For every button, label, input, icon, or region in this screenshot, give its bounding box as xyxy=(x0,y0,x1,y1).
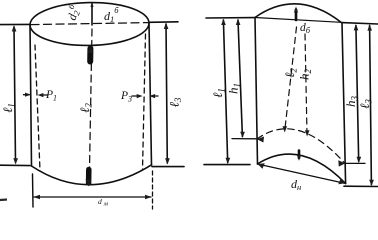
svg-text:h1: h1 xyxy=(226,83,243,94)
bottom-left extension for diameter xyxy=(32,174,35,207)
svg-text:h2: h2 xyxy=(297,69,314,81)
cylinder left side wall xyxy=(30,25,32,167)
d_b thick tick at top arc xyxy=(295,10,298,21)
dimension line l3 (right of left figure) xyxy=(166,24,167,163)
arrowhead P1 right-pointing xyxy=(25,93,31,97)
dashed bark line P3 xyxy=(143,34,146,170)
dashed h2 dimension line xyxy=(305,34,307,134)
svg-text:ℓ2: ℓ2 xyxy=(77,103,94,113)
top-right extension line xyxy=(149,21,178,24)
top diameter tick between arc and diameter line xyxy=(91,4,93,26)
right mid extension line (dashed arc level) xyxy=(346,162,365,164)
P1 arrow left tail xyxy=(24,94,30,96)
log bottom face chord / d_n dimension xyxy=(258,164,346,184)
arrowhead bottom diameter left xyxy=(33,195,40,200)
dashed bark line P1 xyxy=(35,45,40,171)
arrowhead P3 right-pointing xyxy=(137,94,143,98)
arrowhead h3 top xyxy=(354,24,359,30)
bottom-right extension line of right figure xyxy=(344,185,378,187)
arrowhead l3 bottom (right figure) xyxy=(369,180,374,186)
arrowhead l2 mark up xyxy=(88,46,94,53)
top-left extension line xyxy=(0,23,31,25)
scan artifact bottom-left xyxy=(0,198,7,201)
svg-text:ℓ1: ℓ1 xyxy=(210,88,227,98)
svg-text:ℓ3: ℓ3 xyxy=(167,97,184,107)
top-left extension line of right figure xyxy=(206,17,255,19)
hidden bottom rim dashed arc xyxy=(257,129,345,164)
arrowhead l2 mark down xyxy=(86,180,92,187)
l2 thick arrow mark above bottom arc xyxy=(86,170,92,184)
arrowhead d_b tick up xyxy=(294,7,298,13)
svg-text:dм: dм xyxy=(98,197,108,208)
log top face arc xyxy=(255,4,341,22)
svg-text:dн: dн xyxy=(291,177,301,192)
arrowhead l3 top (right figure) xyxy=(367,24,372,30)
P3 arrow right tail xyxy=(151,95,158,97)
arrowhead dashed arc right end xyxy=(338,160,345,166)
bottom-right dashed extension for diameter xyxy=(152,171,154,209)
svg-text:d2б: d2б xyxy=(63,2,84,22)
cylinder right side wall xyxy=(149,23,152,166)
svg-text:dб: dб xyxy=(300,22,311,35)
dimension line h1 xyxy=(238,20,242,137)
l2 thick arrow mark below ellipse xyxy=(87,49,93,62)
arrowhead P3 left-pointing xyxy=(149,94,155,98)
arrowhead bottom diameter right xyxy=(145,195,152,200)
log bottom face arc xyxy=(258,154,346,183)
dashed axis / l2 dimension line xyxy=(285,27,297,130)
log top face chord xyxy=(255,18,341,23)
dimension line l1 (right figure) xyxy=(223,20,227,163)
P1 arrow right tail xyxy=(43,94,49,96)
bottom-right extension line xyxy=(152,166,184,168)
dimension line h3 xyxy=(356,26,359,162)
svg-text:ℓ1: ℓ1 xyxy=(0,103,17,113)
arrowhead h2 dashed bottom xyxy=(305,130,310,136)
cylinder top ellipse (left figure) xyxy=(30,2,150,47)
svg-text:P3: P3 xyxy=(120,90,132,104)
arrowhead h1 bottom xyxy=(240,132,245,138)
arrowhead h1 top xyxy=(236,19,241,25)
svg-text:P1: P1 xyxy=(45,89,57,103)
arrowhead l1 bottom (right figure) xyxy=(226,158,231,164)
dashed horizontal diameter of top ellipse xyxy=(31,23,148,25)
arrowhead P1 left-pointing xyxy=(38,93,44,97)
cylinder bottom rim arc xyxy=(32,165,152,185)
arrowhead h3 bottom xyxy=(357,157,362,163)
arrowhead l2 dashed bottom xyxy=(283,126,288,132)
arrowhead d_n chord right end xyxy=(338,179,345,185)
svg-text:d1б: d1б xyxy=(104,5,119,24)
bottom diameter dimension line xyxy=(34,196,151,198)
arrowhead l1 top xyxy=(12,25,17,32)
arrowhead dashed arc left end xyxy=(257,137,264,143)
dimension line l1 (left) xyxy=(14,27,16,162)
arrowhead l1 top (right figure) xyxy=(221,19,226,25)
bottom-left extension line xyxy=(0,164,30,166)
dimension line l3 (right figure) xyxy=(370,26,372,185)
top-right extension line of right figure xyxy=(342,23,378,24)
arrowhead top tick up xyxy=(90,3,93,7)
log left side xyxy=(255,18,258,165)
arrowhead bottom tick down xyxy=(297,155,301,161)
center axis dashed line xyxy=(90,29,93,169)
left mid extension line (dashed arc level) xyxy=(232,138,256,140)
log right side xyxy=(342,23,346,184)
bottom-left extension line of right figure xyxy=(204,164,250,166)
arrowhead l3 bottom (left figure) xyxy=(165,158,170,164)
arrowhead l3 top (left figure) xyxy=(164,23,169,30)
thick tick above bottom arc peak xyxy=(298,151,301,159)
arrowhead l1 bottom xyxy=(13,158,18,164)
P3 arrow left tail xyxy=(132,95,141,97)
arrowhead d_n chord left end xyxy=(258,163,265,169)
